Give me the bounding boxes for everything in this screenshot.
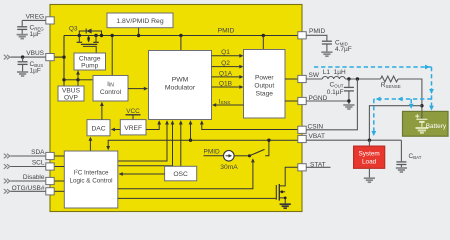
battery cell plates [416,119,427,122]
DAC box [87,120,110,136]
node VBAT/system load [368,139,371,142]
transistor Q-STAT source [279,198,285,204]
svg-text:OVP: OVP [64,94,79,101]
VBUS source chevron [4,55,10,60]
ground (CMID) [321,52,332,56]
svg-text:COUT: COUT [330,82,344,89]
inductor L1 [322,76,345,79]
wire OSC to PWM [180,122,182,167]
svg-text:PWM: PWM [172,77,189,84]
node Q3 left [78,34,81,37]
svg-text:CBAT: CBAT [409,153,422,160]
wire Q2 gate drive [212,66,241,68]
transistor Q-STAT drain [279,167,298,186]
wire VCC to VREF [132,115,134,120]
wire PGND external [306,100,349,102]
system load box [354,146,385,168]
node Q3 body [87,37,90,40]
pin CSIN [298,126,306,133]
switch blade [250,149,265,155]
dashed sense path V3 [373,99,375,135]
transistor Q3 source plate [77,41,83,43]
svg-text:Q2: Q2 [221,60,230,67]
wire Q1 gate drive [212,55,241,57]
svg-text:PMID: PMID [218,28,235,35]
battery stem [421,122,423,128]
battery box [403,111,449,136]
svg-text:Disable: Disable [23,174,45,181]
node battery branch [420,104,423,107]
svg-text:I2C Interface: I2C Interface [73,169,109,177]
node Q3 bridge right [100,34,103,37]
dashed H1 arrowhead [425,65,430,70]
wire system load to ground [368,168,370,177]
wire SDA inner [54,155,64,157]
node power stage top feed [262,34,265,37]
capacitor CBUS stem [22,57,24,61]
svg-text:PMID: PMID [204,148,221,155]
OTG/USB# chevron [4,189,10,194]
wire battery to VBAT rail [369,106,422,141]
svg-text:1.8V/PMID Reg: 1.8V/PMID Reg [116,18,163,25]
dashed V1 mid arrowhead [429,89,434,94]
svg-text:Stage: Stage [256,91,274,98]
wire current source to switch [234,155,249,157]
svg-text:VCC: VCC [126,108,140,115]
svg-text:Q1B: Q1B [219,80,233,87]
ground (STAT transistor) [280,204,291,208]
pin Disable [46,177,54,184]
capacitor COUT stem [348,79,350,87]
svg-text:SCL: SCL [32,160,45,167]
wire SDA [10,155,46,157]
wire VREF to PWM [146,122,159,130]
PWM Modulator box U-PWM [149,51,212,120]
wire VBAT inner rail [108,140,298,148]
arrow VREF to DAC [112,129,120,131]
transistor Q3 body contact [88,36,90,42]
SCL chevron [4,164,10,169]
wire Q1B gate drive [212,86,241,88]
svg-text:Modulator: Modulator [165,85,196,92]
capacitor CMID stem [326,44,328,52]
wire OTG/USB# [10,190,46,192]
wire switch control [118,160,253,189]
wire STAT stub [306,166,331,168]
dashed battery arrow V2 [410,99,412,108]
pin VBUS [46,54,54,61]
wire PMID to current source [204,155,224,157]
transistor Q3 gate bar [81,43,97,45]
wire I2C to PWM line 2 [118,122,173,166]
svg-text:System: System [358,150,379,157]
pin PGND [298,97,306,104]
svg-text:PMID: PMID [309,28,326,35]
svg-text:OSC: OSC [173,171,188,178]
wire Disable inner [54,180,64,182]
wire into battery [421,111,423,119]
node VBAT-PWM branch [189,139,192,142]
ground (CBAT) [396,168,407,172]
I_IN Control box [93,76,128,102]
wire CSIN external [306,79,357,130]
svg-text:Output: Output [254,83,274,90]
transistor Q-STAT body tap [279,191,285,193]
regulator 1.8V/PMID Reg box [107,13,173,28]
pin SDA [46,152,54,159]
svg-text:Logic & Control: Logic & Control [69,178,112,185]
pin PMID [298,32,306,39]
svg-text:VBUS: VBUS [26,50,44,57]
wire switch to VBAT riser [265,140,269,156]
capacitor CREG lower stem [21,29,23,34]
wire tee to charge pump branch [64,79,78,81]
SDA chevron [4,154,10,159]
capacitor CREG [17,27,27,30]
capacitor COUT [344,87,354,91]
node I_IN feed [111,34,114,37]
capacitor CBAT [396,162,406,165]
capacitor CBUS lower stem [22,64,24,71]
wire power stage to SW pin [285,78,298,80]
node VBUS ext junction [21,55,24,58]
switch pivot [248,154,251,157]
node Reg stub [137,34,140,37]
svg-text:IIN: IIN [107,81,114,89]
arrow OSC to I2C [120,173,165,175]
svg-text:30mA: 30mA [220,164,238,171]
transistor Q3 source contact [78,36,80,43]
ground (system load) [364,178,375,182]
node charge pump feed [76,78,79,81]
wire Disable [10,180,46,182]
svg-text:1µF: 1µF [30,67,41,74]
svg-text:Load: Load [362,158,377,165]
capacitor CBUS [18,62,28,65]
svg-text:Control: Control [100,89,122,96]
ground (battery internal) [415,128,428,133]
svg-text:VBAT: VBAT [309,133,326,140]
wire OTG inner [54,190,64,192]
transistor Q3 body-diode bridge [79,31,101,36]
wire power stage to PGND pin [285,100,298,102]
wire STAT gate line [118,197,276,199]
node CSIN junction [356,77,359,80]
ground (CBUS) [17,72,28,76]
wire Reg stub [138,28,140,36]
Power Output Stage box [244,50,286,119]
wire ISNS [216,104,244,106]
node Q-STAT body [281,190,284,193]
ground (PGND/COUT) [343,105,354,109]
svg-text:Q1: Q1 [221,49,230,56]
transistor Q3 body diode [86,29,91,34]
dashed sense path H2 [374,98,432,100]
OSC box [165,166,197,181]
battery + sign [415,114,419,118]
svg-text:Q1A: Q1A [219,70,233,77]
svg-text:Power: Power [255,75,274,82]
wire PWM top stub [180,36,182,51]
arrow VBAT rail into I2C [106,146,110,150]
wire I_IN feed drop [111,36,113,76]
transistor Q3 gate lead [83,46,96,53]
svg-text:Q3: Q3 [69,26,78,33]
svg-text:VREF: VREF [124,125,142,132]
node PGND junction [347,99,350,102]
capacitor CMID [322,41,332,44]
node Q-STAT source [284,197,287,200]
wire SCL inner [54,166,64,168]
wire VBUS sense to I_IN Control [78,79,93,81]
capacitor CREG stem [21,20,23,26]
wire VBUS riser [63,36,65,87]
IC block body (yellow) [50,5,302,212]
arrow I_IN Control to PWM [128,88,145,90]
wire PMID rail [64,35,298,37]
wire charge pump feed riser [77,71,79,86]
wire VBUS pin to riser [54,56,64,58]
pin SW [298,75,306,82]
svg-text:Pump: Pump [81,63,99,70]
VCC rail bar [126,114,141,116]
arrow DAC to I_IN Control [101,104,103,120]
capacitor COUT lower stem [348,91,350,104]
wire CSIN inner [202,122,298,130]
svg-text:Battery: Battery [426,123,447,130]
wire power stage top stub [262,36,264,50]
wire I2C to PWM line 1 [118,122,167,161]
svg-text:VREG: VREG [26,13,44,20]
svg-text:SDA: SDA [31,149,45,156]
wire SCL [10,166,46,168]
capacitor CBAT stem [400,140,402,161]
VREF box [120,120,146,135]
pin VREG [46,17,54,24]
svg-text:1µF: 1µF [30,31,41,38]
pin SCL [46,163,54,170]
I2C Interface Logic & Control box [64,151,118,208]
charge pump U-CP box [74,53,106,70]
transistor Q-STAT gate bar [275,185,277,200]
wire system load stub [368,140,370,146]
node VBUS [62,55,65,58]
wire PMID external [306,35,327,40]
node PWM top feed [179,34,182,37]
dashed H2 arrowhead 1 [376,97,381,102]
node COUT junction [347,77,350,80]
wire VBAT branch to PWM [190,122,192,140]
dashed sense path V1 [431,67,433,110]
svg-text:DAC: DAC [91,125,105,132]
Disable chevron [4,179,10,184]
pin STAT [298,164,306,171]
arrow I2C to DAC [89,138,91,151]
node Q3 right [94,34,97,37]
ground (CREG) [17,35,28,39]
dashed V1 end arrowhead [429,106,434,111]
node switch on VBAT rail [267,139,270,142]
dashed sense path H1 [314,66,432,68]
transistor Q3 body arrowhead [87,39,90,42]
wire VBAT external [306,139,401,141]
VBUS OVP box [58,86,84,101]
transistor Q-STAT channel bar [278,184,280,201]
wire SW to inductor [306,78,322,80]
wire VREG pin to capacitor [22,19,46,21]
svg-text:RSENSE: RSENSE [381,82,401,89]
svg-text:L1 1µH: L1 1µH [323,69,346,76]
arrow into Charge Pump [76,70,80,74]
pin VBAT [298,135,306,142]
pin OTG/USB# [46,188,54,195]
transistor Q3 drain contact [95,36,97,43]
wire Q1A gate drive [212,76,241,78]
transistor Q3 drain plate [93,41,99,43]
wire RSENSE to battery [398,79,422,111]
current source 30mA [224,151,235,162]
svg-text:4.7µF: 4.7µF [335,46,352,53]
capacitor CBAT lower stem [400,165,402,168]
svg-text:SW: SW [309,72,320,79]
node VBUS-OVP tee [62,78,65,81]
svg-text:Charge: Charge [79,56,101,63]
svg-text:0.1µF: 0.1µF [327,89,344,96]
resistor RSENSE [381,76,398,82]
dashed H2 arrowhead 2 [398,97,403,102]
wire VBUS external [10,56,46,58]
wire inductor to RSENSE [345,78,380,80]
